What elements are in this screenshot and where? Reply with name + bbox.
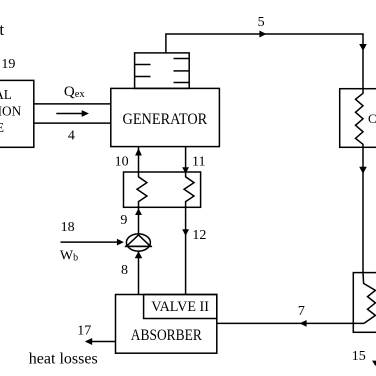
svg-text:Wb: Wb (60, 248, 78, 263)
svg-text:17: 17 (77, 323, 91, 338)
svg-text:7: 7 (298, 304, 305, 319)
svg-text:E: E (0, 120, 4, 135)
svg-text:4: 4 (68, 129, 75, 144)
svg-text:AL: AL (0, 87, 12, 102)
svg-text:ION: ION (0, 103, 22, 118)
svg-text:11: 11 (192, 155, 205, 170)
svg-text:12: 12 (192, 228, 206, 243)
svg-text:10: 10 (115, 155, 129, 170)
svg-text:9: 9 (120, 213, 127, 228)
svg-text:C: C (368, 111, 376, 126)
svg-text:t: t (0, 20, 4, 39)
svg-text:15: 15 (352, 349, 366, 364)
svg-text:Qex: Qex (64, 84, 86, 100)
svg-text:heat losses: heat losses (29, 350, 98, 367)
svg-text:5: 5 (258, 15, 265, 30)
svg-text:19: 19 (1, 57, 15, 72)
svg-text:18: 18 (61, 220, 75, 235)
svg-text:ABSORBER: ABSORBER (131, 327, 203, 344)
svg-text:VALVE II: VALVE II (151, 299, 209, 315)
svg-text:GENERATOR: GENERATOR (123, 111, 208, 128)
svg-text:8: 8 (121, 263, 128, 278)
